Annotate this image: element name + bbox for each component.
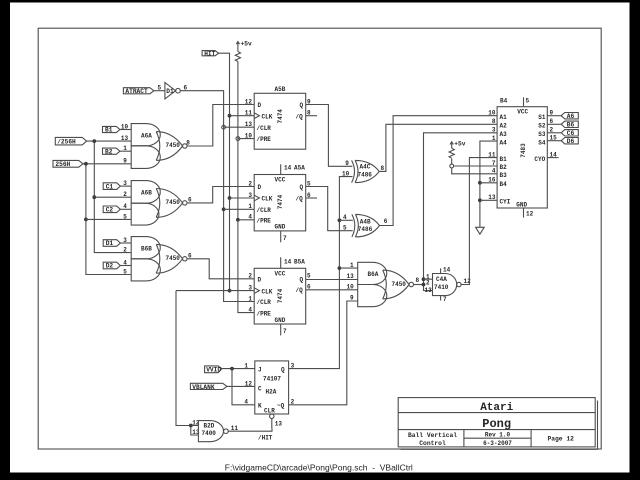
svg-text:D6: D6 (567, 138, 575, 145)
svg-text:CLK: CLK (262, 288, 273, 295)
tag ATRACT (123, 88, 153, 95)
svg-text:A2: A2 (500, 123, 508, 130)
svg-text:/CLR: /CLR (257, 299, 272, 306)
wire /256H to A6B.2 (94, 196, 131, 198)
svg-text:16: 16 (488, 177, 496, 184)
svg-text:B2D: B2D (204, 422, 215, 429)
wire A5A /PRE stub (238, 219, 254, 221)
svg-text:S4: S4 (538, 139, 546, 146)
svg-text:13: 13 (347, 273, 355, 280)
wire S1 to tag (547, 115, 561, 117)
svg-text:6-3-2007: 6-3-2007 (483, 440, 512, 447)
tag VBLANK (190, 383, 227, 391)
svg-text:13: 13 (488, 194, 496, 201)
tag A6 (561, 113, 578, 121)
svg-text:7: 7 (283, 328, 287, 335)
wire CYO stub (547, 157, 558, 159)
svg-text:13: 13 (425, 287, 433, 294)
tag D2 (103, 262, 120, 270)
wire A5A CLK stub (230, 197, 255, 199)
svg-text:14: 14 (443, 267, 451, 274)
wire A6A out to A5B D (187, 105, 254, 147)
svg-text:A6A: A6A (141, 132, 152, 139)
svg-text:3: 3 (291, 363, 295, 370)
svg-text:GND: GND (516, 201, 527, 208)
svg-text:7450: 7450 (166, 142, 181, 149)
gate A6A 7450 (131, 124, 190, 169)
svg-text:7: 7 (283, 235, 287, 242)
svg-text:Page 12: Page 12 (547, 436, 574, 443)
svg-text:10: 10 (488, 110, 496, 117)
svg-text:D: D (258, 184, 262, 191)
svg-text:Ball Vertical: Ball Vertical (408, 432, 457, 439)
svg-text:5: 5 (526, 98, 530, 105)
wire B6B out to B5A D (187, 259, 254, 279)
svg-text:VBLANK: VBLANK (192, 384, 215, 391)
svg-text:10: 10 (121, 123, 129, 130)
svg-text:GND: GND (275, 317, 286, 324)
svg-text:12: 12 (526, 211, 534, 218)
svg-text:C: C (258, 386, 262, 393)
svg-text:B6A: B6A (368, 271, 379, 278)
svg-text:12: 12 (245, 380, 253, 387)
svg-text:VCC: VCC (275, 271, 286, 278)
inverter D1 (165, 83, 188, 99)
svg-text:7450: 7450 (166, 199, 181, 206)
wire B6A.1 stub (339, 267, 357, 269)
svg-text:5: 5 (123, 213, 127, 220)
tag C2 (103, 206, 120, 214)
svg-text:Pong: Pong (482, 417, 511, 431)
tag /256H (55, 137, 86, 145)
wire A5A /CLR stub (224, 208, 255, 210)
wire B2 to A6A.1 (120, 150, 131, 152)
wire S2 to tag (547, 123, 561, 125)
wire D1 out to /CLR bus (180, 91, 254, 302)
flip-flop H2A 74107 (255, 361, 295, 428)
svg-text:A6B: A6B (141, 189, 152, 196)
svg-text:7400: 7400 (202, 430, 217, 437)
gate A4C 7486 (342, 160, 385, 182)
svg-text:D1: D1 (166, 88, 174, 95)
adder B4 7483 (488, 97, 557, 217)
wire B4 stub (480, 182, 497, 184)
svg-text:2: 2 (248, 180, 252, 187)
svg-text:2: 2 (291, 399, 295, 406)
tag D1 (103, 240, 120, 248)
svg-text:7474: 7474 (277, 194, 284, 209)
svg-text:B2: B2 (500, 164, 508, 171)
gate A6B 7450 (131, 181, 192, 226)
tag B6 (561, 121, 578, 129)
svg-text:3: 3 (123, 180, 127, 187)
svg-text:2: 2 (248, 273, 252, 280)
svg-text:Atari: Atari (480, 402, 513, 414)
svg-text:J: J (258, 366, 262, 373)
svg-text:CYI: CYI (500, 199, 511, 206)
wire C4A.1 stub (424, 278, 433, 280)
wire A4C out to 7483 A2 (379, 124, 497, 171)
svg-text:7450: 7450 (392, 281, 407, 288)
svg-text:D: D (258, 277, 262, 284)
wire ground net A4 B4 CYI (480, 141, 497, 227)
svg-text:12: 12 (245, 98, 253, 105)
junction C4A.2 (422, 283, 426, 287)
tag C6 (561, 130, 578, 138)
svg-text:VCC: VCC (517, 109, 528, 116)
wire CYI stub (480, 199, 497, 201)
svg-text:4: 4 (244, 399, 248, 406)
svg-text:Q: Q (300, 184, 304, 191)
svg-text:S3: S3 (538, 131, 546, 138)
ground (476, 227, 485, 234)
wire A5B Q to A4C.9 (306, 105, 353, 167)
svg-text:7: 7 (443, 296, 447, 303)
tag 256H (53, 160, 83, 168)
svg-text:10: 10 (347, 284, 355, 291)
svg-text:5: 5 (343, 225, 347, 232)
svg-text:/HIT: /HIT (258, 435, 273, 442)
svg-text:74107: 74107 (263, 376, 281, 383)
wire +5v net to /PRE pins (238, 62, 254, 313)
svg-text:5: 5 (158, 85, 162, 92)
svg-text:+5v: +5v (454, 141, 465, 148)
svg-text:VVID: VVID (206, 366, 221, 373)
junction CYI (478, 198, 482, 202)
svg-text:Q: Q (281, 366, 285, 373)
svg-text:Q: Q (300, 277, 304, 284)
svg-text:B1: B1 (105, 127, 113, 134)
wire 256H to A6B.5 (86, 218, 131, 220)
svg-text:2: 2 (123, 247, 127, 254)
svg-text:9: 9 (345, 160, 349, 167)
svg-text:D1: D1 (106, 240, 114, 247)
svg-text:HIT: HIT (204, 50, 215, 57)
svg-text:K: K (258, 403, 262, 410)
tag C1 (103, 183, 120, 191)
svg-text:8: 8 (416, 277, 420, 284)
wire B2D out to 74107 CLR (228, 428, 272, 431)
svg-text:6: 6 (384, 218, 388, 225)
svg-text:1: 1 (248, 295, 252, 302)
svg-text:2: 2 (123, 191, 127, 198)
wire 7483 A3 net down to C4A inputs (424, 133, 498, 291)
power +5v pullup R (236, 40, 252, 51)
svg-text:S2: S2 (538, 123, 546, 130)
wire A5B /CLR stub (224, 126, 255, 128)
svg-text:4: 4 (123, 203, 127, 210)
svg-text:256H: 256H (55, 161, 70, 168)
wire VBLANK to C (227, 385, 255, 387)
wire VVID to J and K (222, 368, 255, 370)
flip-flop B5A 7474 (248, 257, 311, 335)
svg-text:A5B: A5B (275, 86, 286, 93)
junction A5A /PRE (236, 218, 240, 222)
gate B6A 7450 (358, 262, 420, 306)
svg-text:8: 8 (492, 118, 496, 125)
svg-text:/256H: /256H (57, 139, 76, 146)
svg-text:A4: A4 (500, 139, 508, 146)
junction C4A.1 (422, 277, 426, 281)
svg-text:B1: B1 (500, 156, 508, 163)
svg-text:1: 1 (350, 262, 354, 269)
wire B5A Q to B6A.13 (306, 279, 358, 281)
svg-text:C6: C6 (567, 130, 575, 137)
svg-text:F:\vidgameCD\arcade\Pong\Pong.: F:\vidgameCD\arcade\Pong\Pong.sch - VBal… (225, 463, 413, 473)
wire D2 to B6B.4 (120, 265, 131, 267)
svg-text:1: 1 (123, 145, 127, 152)
svg-text:/Q: /Q (296, 196, 304, 203)
wire C2 to A6B.4 (120, 208, 131, 210)
svg-text:+5v: +5v (241, 40, 252, 47)
svg-text:7410: 7410 (434, 284, 449, 291)
gate C4A 7410 (425, 267, 472, 303)
svg-text:7: 7 (492, 160, 496, 167)
resistor (pullup) (235, 52, 240, 62)
wire B2D.13 strap (191, 426, 199, 436)
junction B6A.1 (338, 266, 342, 270)
svg-text:A5A: A5A (294, 165, 305, 172)
svg-text:A1: A1 (500, 114, 508, 121)
wire A5A /Q stub (306, 197, 317, 199)
wire A4B.4 stub (339, 219, 352, 221)
wire VVID net to B5A CLK (176, 290, 254, 292)
svg-text:Control: Control (419, 440, 446, 447)
svg-text:3: 3 (492, 127, 496, 134)
svg-text:B2: B2 (105, 148, 113, 155)
svg-text:/CLR: /CLR (257, 207, 272, 214)
junction B2D.12/13 (189, 424, 193, 428)
svg-text:5: 5 (123, 268, 127, 275)
svg-text:7450: 7450 (166, 255, 181, 262)
svg-text:7483: 7483 (520, 143, 527, 158)
wire A6B out to A5A D (187, 187, 254, 203)
open junction A5B /PRE (236, 137, 240, 141)
gate B2D 7400 (198, 421, 238, 442)
wire A5A Q to A4B.5 (306, 187, 353, 231)
wire S4 to tag (547, 140, 561, 142)
power +5v B-input R (450, 141, 466, 149)
svg-text:CLK: CLK (262, 196, 273, 203)
svg-text:4: 4 (248, 307, 252, 314)
wire A4B out to 7483 A1 (380, 116, 498, 226)
title block (398, 398, 597, 450)
junction B4 (478, 181, 482, 185)
svg-text:14: 14 (284, 258, 292, 265)
wire C4A out to 7483 B1 (461, 158, 497, 285)
svg-text:/CLR: /CLR (257, 125, 272, 132)
wire R to 7483 B2 B3 (451, 159, 453, 165)
junction B5A CLK (228, 289, 232, 293)
svg-text:4: 4 (123, 259, 127, 266)
junction A6B.5 on 256H (84, 218, 88, 222)
svg-text:B4: B4 (500, 98, 508, 105)
svg-text:7486: 7486 (358, 226, 373, 233)
tag HIT (202, 50, 219, 57)
svg-text:Q: Q (300, 102, 304, 109)
flip-flop A5B 7474 (245, 86, 311, 149)
svg-text:~Q: ~Q (277, 403, 285, 410)
svg-text:CYO: CYO (534, 156, 545, 163)
svg-text:ATRACT: ATRACT (125, 88, 148, 95)
svg-text:5: 5 (307, 273, 311, 280)
svg-text:/PRE: /PRE (257, 136, 272, 143)
svg-text:C1: C1 (106, 183, 114, 190)
svg-text:2: 2 (426, 279, 430, 286)
wire S3 to tag (547, 132, 561, 134)
junction A4B.4 (338, 218, 342, 222)
svg-text:/Q: /Q (296, 113, 304, 120)
svg-text:H2A: H2A (266, 388, 277, 395)
svg-text:C4A: C4A (436, 276, 447, 283)
svg-text:/Q: /Q (296, 287, 304, 294)
wire 256H to A6A.9 and down (83, 163, 131, 165)
svg-text:A3: A3 (500, 131, 508, 138)
tag B2 (103, 148, 120, 155)
wire /256H to A6A.13 and down (87, 140, 132, 142)
junction A5B CLK (228, 114, 232, 118)
junction A6B.2 on /256H (92, 195, 96, 199)
svg-text:14: 14 (284, 165, 292, 172)
svg-text:13: 13 (275, 420, 283, 427)
svg-text:CLK: CLK (262, 113, 273, 120)
svg-text:11: 11 (488, 152, 496, 159)
junction A5A CLK (228, 196, 232, 200)
svg-text:Rev 1.0: Rev 1.0 (485, 432, 511, 439)
flip-flop A5A 7474 (248, 164, 311, 242)
svg-text:7474: 7474 (277, 109, 284, 124)
svg-text:/PRE: /PRE (257, 218, 272, 225)
wire A4C.10 net (289, 177, 353, 369)
svg-text:3: 3 (123, 237, 127, 244)
resistor (B input) (449, 148, 454, 158)
svg-text:B6: B6 (567, 122, 575, 129)
svg-text:D: D (258, 102, 262, 109)
svg-text:A4C: A4C (360, 164, 371, 171)
wire C1 to A6B.3 (120, 185, 131, 187)
wire B6A out to C4A (414, 284, 424, 286)
svg-text:B3: B3 (500, 172, 508, 179)
svg-text:A6: A6 (567, 113, 575, 120)
svg-text:/PRE: /PRE (257, 310, 272, 317)
svg-text:D2: D2 (106, 263, 114, 270)
wire B5A /Q to B6A.10 (306, 289, 358, 291)
svg-text:CLR: CLR (264, 407, 275, 414)
gate B6B 7450 (131, 237, 192, 281)
svg-text:7486: 7486 (358, 171, 373, 178)
svg-text:4: 4 (492, 168, 496, 175)
wire B6A.9 to 74107 /Q (289, 301, 358, 405)
wire B1 to A6A.10 (120, 129, 131, 131)
wire D1 to B6B.3 (120, 242, 131, 244)
wire A5B CLK stub (230, 115, 255, 117)
svg-text:B5A: B5A (294, 258, 305, 265)
svg-text:9: 9 (123, 158, 127, 165)
svg-text:A4B: A4B (360, 218, 371, 225)
svg-text:GND: GND (275, 224, 286, 231)
svg-text:B4: B4 (500, 181, 508, 188)
svg-text:B6B: B6B (141, 245, 152, 252)
svg-text:1: 1 (244, 363, 248, 370)
wire A5B /PRE stub (238, 138, 254, 140)
svg-text:13: 13 (121, 135, 129, 142)
svg-text:C2: C2 (106, 207, 114, 214)
svg-text:VCC: VCC (275, 177, 286, 184)
wire A5B /Q stub (306, 115, 317, 117)
wire HIT to CLK bus (219, 53, 230, 290)
tag VVID (205, 366, 222, 373)
tag D6 (561, 138, 578, 146)
tag B1 (103, 126, 120, 133)
svg-text:7474: 7474 (277, 288, 284, 303)
open junction A5B /CLR (222, 125, 226, 129)
wire ATRACT to D1 (154, 90, 165, 92)
wire CLK net down to B2D (176, 291, 198, 426)
svg-text:S1: S1 (538, 114, 546, 121)
gate A4B 7486 (343, 214, 388, 237)
svg-text:1: 1 (492, 135, 496, 142)
border frame (38, 28, 601, 449)
junction A5A /CLR (222, 207, 226, 211)
